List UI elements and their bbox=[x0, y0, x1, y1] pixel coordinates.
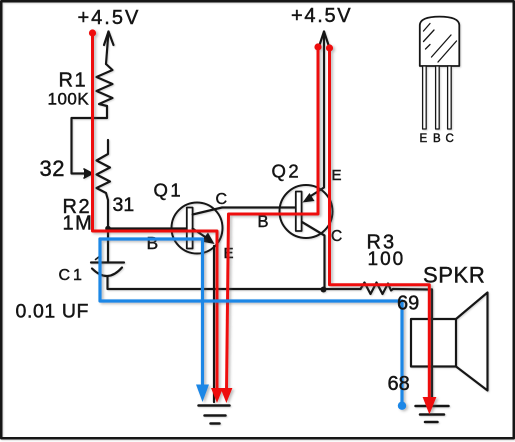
svg-text:0.01 UF: 0.01 UF bbox=[16, 301, 90, 323]
svg-text:100: 100 bbox=[368, 249, 406, 270]
svg-text:B: B bbox=[433, 133, 441, 145]
svg-text:Q1: Q1 bbox=[154, 180, 184, 201]
svg-text:32: 32 bbox=[40, 156, 65, 181]
svg-text:1M: 1M bbox=[63, 213, 94, 235]
svg-text:R1: R1 bbox=[59, 70, 88, 92]
svg-text:C: C bbox=[216, 191, 228, 208]
svg-text:B: B bbox=[147, 233, 159, 253]
svg-text:C: C bbox=[446, 133, 454, 145]
svg-text:SPKR: SPKR bbox=[423, 263, 485, 288]
svg-text:C1: C1 bbox=[59, 267, 85, 284]
svg-text:B: B bbox=[258, 213, 269, 231]
svg-text:E: E bbox=[332, 167, 342, 184]
svg-text:31: 31 bbox=[113, 194, 135, 216]
svg-text:C: C bbox=[331, 228, 342, 245]
svg-text:Q2: Q2 bbox=[272, 161, 302, 182]
svg-text:+4.5V: +4.5V bbox=[291, 5, 352, 27]
svg-text:100K: 100K bbox=[48, 90, 90, 109]
svg-text:68: 68 bbox=[388, 373, 410, 395]
svg-text:69: 69 bbox=[397, 293, 419, 315]
svg-text:E: E bbox=[420, 133, 428, 145]
svg-text:+4.5V: +4.5V bbox=[78, 7, 141, 29]
